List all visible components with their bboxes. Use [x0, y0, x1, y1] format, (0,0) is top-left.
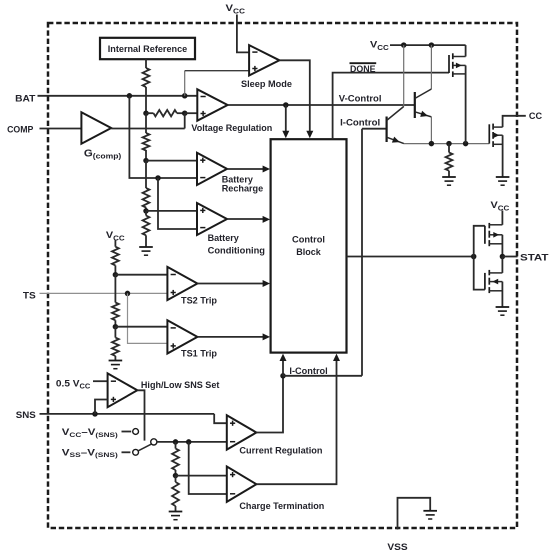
node L (VCC tap Q1) — [429, 42, 435, 48]
wire VSS-V(SNS) lead — [122, 451, 131, 453]
arrow into Control Block top (v-control) — [282, 131, 289, 138]
resistor R1 (reference string top) — [143, 68, 150, 87]
wire STAT output to pin — [502, 256, 517, 258]
node B (VR plus tap) — [182, 110, 188, 116]
wire reference output lead — [145, 59, 147, 68]
svg-text:TS2 Trip: TS2 Trip — [181, 296, 217, 307]
label TS1 Trip — [181, 349, 217, 360]
wire BAT to Sleep Mode plus (vertical, thin) — [184, 71, 186, 96]
svg-text:Control: Control — [292, 234, 325, 245]
wire R8 to ground — [114, 356, 116, 361]
svg-text:Charge Termination: Charge Termination — [239, 501, 324, 512]
wire Q1 collector riser (thin) — [430, 45, 432, 89]
control block U11 — [271, 139, 347, 352]
resistor R6 (TS divider top) — [112, 247, 119, 266]
transistor Q1 (V-Control NPN) — [415, 89, 432, 118]
node V-Control junction — [283, 102, 289, 108]
resistor R8 (TS divider bottom) — [112, 338, 119, 356]
arrow into Control Block left (recharge) — [263, 166, 270, 173]
arrow into Control Block bottom (i-control) — [280, 354, 287, 361]
wire BAT to Sleep Mode plus (horizontal) — [185, 70, 249, 72]
svg-text:STAT: STAT — [520, 253, 549, 264]
node N (rail junction R11) — [446, 141, 452, 147]
power VCC (TS divider) — [106, 230, 125, 242]
pin STAT label — [520, 253, 549, 264]
label TS2 Trip — [181, 296, 217, 307]
op-amp U5 TS2 Trip — [167, 267, 197, 300]
wire Charge Termination output to Control Block bottom — [256, 356, 336, 484]
label I-Control (bottom) — [289, 366, 327, 377]
wire emitter rail (thin) — [404, 143, 489, 145]
wire TS branch to TS1 Trip plus (gray) — [128, 293, 168, 343]
wire Battery Conditioning output — [227, 218, 264, 220]
svg-text:Block: Block — [296, 247, 321, 258]
svg-text:Battery: Battery — [208, 233, 240, 244]
wire gate bracket — [474, 226, 485, 290]
wire D-R5 lead — [145, 211, 147, 216]
switch S1 blade — [138, 444, 151, 451]
wire VCC to M3 source — [501, 211, 503, 225]
ground (emitter rail) — [442, 177, 456, 185]
wire SNS to High/Low plus — [95, 400, 108, 414]
svg-text:High/Low SNS Set: High/Low SNS Set — [141, 380, 220, 391]
node Q (STAT output node) — [500, 254, 506, 260]
wire BAT input — [38, 95, 130, 97]
pin VSS label — [387, 542, 407, 553]
wire R2 right lead — [177, 112, 185, 114]
node G (TS1 threshold tap) — [113, 324, 119, 330]
node K (VCC tap Q2) — [401, 42, 407, 48]
node F (TS2 threshold tap) — [113, 272, 119, 278]
node BAT junction 2 — [182, 93, 188, 99]
chip boundary (dashed box) — [48, 23, 517, 528]
label Voltage Regulation — [191, 123, 272, 134]
wire node E to Battery Conditioning minus — [158, 178, 197, 229]
wire V-Control to Control Block top — [285, 105, 287, 135]
resistor R2 (horizontal to VR plus) — [154, 110, 177, 116]
wire VCC-V(SNS) lead — [122, 431, 132, 433]
wire 0.5VCC to High/Low minus — [93, 380, 108, 382]
node D (conditioning tap) — [143, 208, 149, 214]
wire Q1 emitter drop (thin) — [430, 117, 432, 144]
node SNS junction — [92, 411, 98, 417]
wire Q2 collector riser (thin) — [403, 45, 405, 106]
label VCC-V(SNS) — [62, 427, 118, 439]
power VCC (drive stage) — [370, 40, 389, 52]
wire R3 to node C — [145, 150, 147, 161]
wire G(comp) output to node B branch — [111, 128, 185, 130]
wire VCC to M1 source — [465, 45, 467, 56]
resistor R4 (reference string) — [143, 188, 150, 208]
internal reference block U10 — [100, 38, 195, 59]
wire M3 drain to STAT node — [501, 235, 503, 257]
wire M4 source to ground — [501, 282, 503, 307]
node A (reference tap 1) — [143, 110, 149, 116]
arrow into Control Block top (sleep) — [306, 131, 313, 138]
ground (M4 source) — [496, 307, 510, 315]
wire F-R7 lead — [114, 275, 116, 303]
wire I-Control node to I-Control riser — [283, 375, 362, 377]
wire VCC to Sleep Mode minus — [237, 15, 249, 53]
ground (TS divider) — [109, 361, 123, 369]
wire M1 drain to rail — [465, 65, 467, 143]
label Sleep Mode — [241, 79, 292, 90]
wire M2 drain to CC pin — [503, 116, 526, 127]
svg-text:Current Regulation: Current Regulation — [239, 445, 322, 456]
wire node G to TS1 Trip minus — [115, 326, 167, 328]
wire R1 to node A (crosses BAT line) — [145, 87, 147, 113]
wire Current Regulation output to I-Control node — [256, 376, 283, 433]
arrow into Control Block left (TS2) — [263, 280, 270, 287]
wire R5 to ground — [145, 235, 147, 247]
svg-text:DONE: DONE — [350, 64, 376, 74]
transistor M2 (CC NMOS) — [489, 124, 502, 147]
switch S1 pole — [151, 439, 157, 445]
op-amp U9 Charge Termination — [227, 467, 257, 502]
svg-text:TS: TS — [23, 291, 36, 302]
label Charge Termination — [239, 501, 324, 512]
op-amp U4 Battery Conditioning — [197, 203, 227, 235]
wire I-Control node to Control Block bottom — [282, 356, 284, 376]
resistor R3 (reference string) — [143, 133, 150, 151]
node BAT junction 1 — [127, 93, 133, 99]
label Battery Recharge — [222, 174, 264, 194]
svg-text:VSS: VSS — [387, 542, 407, 553]
wire TS2 Trip output — [197, 283, 263, 285]
label V-Control — [339, 93, 382, 104]
wire R9 to node J — [175, 470, 177, 476]
arrow into Control Block left (TS1) — [263, 333, 270, 340]
transistor Q2 (I-Control NPN) — [387, 107, 404, 144]
wire COMP input — [40, 128, 82, 130]
op-amp U3 Battery Recharge — [197, 153, 227, 185]
label High/Low SNS Set — [141, 380, 220, 391]
wire SNS input — [40, 413, 215, 415]
ground (VSS) — [423, 511, 437, 519]
resistor R10 (SNS filter bottom) — [172, 482, 179, 506]
wire node D to Battery Conditioning plus — [146, 210, 197, 212]
wire node B down to G(comp) output line — [184, 113, 186, 128]
svg-text:SNS: SNS — [16, 410, 36, 421]
op-amp U7 High/Low SNS Set — [108, 373, 138, 407]
node I (switch line junction 2) — [186, 439, 192, 445]
wire C-R4 lead — [145, 161, 147, 188]
power VCC (top) — [226, 3, 246, 15]
op-amp U1 Sleep Mode — [249, 45, 279, 75]
wire node F to TS2 Trip minus — [115, 274, 167, 276]
wire switch common to Current Regulation minus — [157, 441, 227, 443]
svg-text:Sleep Mode: Sleep Mode — [241, 79, 292, 90]
node M (rail junction Q1) — [429, 141, 435, 147]
svg-text:COMP: COMP — [7, 125, 34, 136]
op-amp U8 Current Regulation — [227, 415, 257, 449]
svg-text:V-Control: V-Control — [339, 93, 382, 104]
wire VCC lead to R6 — [114, 240, 116, 247]
wire N-R11 lead — [448, 144, 450, 153]
wire node I to Charge Termination minus — [189, 442, 227, 494]
resistor R7 (TS divider middle) — [112, 303, 119, 321]
label G(comp) — [84, 148, 122, 160]
wire I-Control riser — [361, 129, 363, 376]
svg-text:CC: CC — [529, 111, 542, 122]
wire R1b lead — [145, 113, 147, 133]
terminal VCC-V(SNS) contact — [133, 429, 139, 435]
terminal VSS-V(SNS) contact — [133, 449, 139, 455]
ground (M2 source) — [496, 177, 510, 185]
wire TS1 Trip output — [197, 336, 263, 338]
node I-Control junction — [280, 373, 286, 379]
label DONE with overline — [350, 63, 377, 74]
resistor R9 (SNS filter top) — [172, 449, 179, 471]
wire VSS to ground — [398, 498, 431, 530]
label I-Control (top) — [340, 118, 380, 129]
svg-text:Conditioning: Conditioning — [208, 246, 266, 257]
label Battery Conditioning — [208, 233, 266, 256]
op-amp U2 Voltage Regulation — [197, 89, 227, 120]
resistor R5 (reference string bottom) — [143, 216, 150, 236]
node C (recharge tap) — [143, 158, 149, 164]
pin BAT label — [15, 93, 35, 104]
power VCC (STAT driver) — [491, 200, 510, 212]
svg-text:I-Control: I-Control — [340, 118, 380, 129]
ground (reference string) — [139, 247, 153, 255]
amplifier G(comp) — [81, 112, 111, 143]
arrow into Control Block left (conditioning) — [263, 216, 270, 223]
pin TS label — [23, 291, 36, 302]
node H (switch line junction 1) — [173, 439, 179, 445]
svg-text:BAT: BAT — [15, 93, 35, 104]
pin CC label — [529, 111, 542, 122]
wire BAT branch down — [129, 96, 197, 178]
wire Sleep Mode output to Control Block top — [279, 60, 309, 135]
svg-text:TS1 Trip: TS1 Trip — [181, 349, 217, 360]
label 0.5 VCC — [56, 378, 90, 390]
wire STAT (Control Block to gates) — [347, 256, 474, 258]
wire node C to Battery Recharge plus — [146, 160, 197, 162]
resistor R11 (emitter rail load) — [446, 153, 453, 171]
transistor M1 (DONE PMOS) — [449, 53, 466, 77]
node TS junction — [125, 291, 131, 297]
pin SNS label — [16, 410, 36, 421]
wire VCC rail — [390, 44, 466, 46]
wire SNS step to Current Regulation plus — [214, 414, 227, 423]
wire R2 left lead — [146, 112, 154, 114]
wire I-Control to Q2 base — [362, 128, 387, 130]
wire DONE (Control Block to M1 gate) — [333, 73, 449, 140]
wire node J to Charge Termination plus — [176, 475, 227, 477]
wire H-R9 lead — [175, 442, 177, 449]
node E (recharge minus junction) — [155, 175, 161, 181]
node P (gate bracket junction) — [471, 254, 477, 260]
op-amp U6 TS1 Trip — [167, 320, 197, 353]
label VSS-V(SNS) — [62, 447, 118, 459]
transistor M3 (STAT PMOS) — [485, 223, 503, 246]
wire M4 drain to STAT node — [501, 257, 503, 273]
wire R10 to ground — [175, 506, 177, 512]
wire rail to M2 gate — [488, 143, 490, 145]
wire R6 to node F — [114, 265, 116, 274]
wire M2 source to ground — [502, 135, 504, 177]
wire J-R10 lead — [175, 476, 177, 482]
svg-text:Internal Reference: Internal Reference — [108, 44, 188, 54]
svg-text:Recharge: Recharge — [222, 183, 264, 194]
wire High/Low output to switch — [137, 390, 144, 440]
ground (SNS filter) — [169, 512, 183, 520]
wire TS input to TS2 Trip plus (gray) — [40, 292, 168, 294]
pin COMP label — [7, 125, 34, 136]
wire node B to Voltage Regulation plus — [185, 112, 198, 114]
arrow into Control Block bottom (termination) — [333, 354, 340, 361]
svg-text:Voltage Regulation: Voltage Regulation — [191, 123, 272, 134]
wire R7 to node G — [114, 320, 116, 326]
wire G-R8 lead — [114, 327, 116, 338]
wire V-Control line (VR output to Q1 base) — [228, 104, 415, 106]
wire Battery Recharge output — [227, 168, 264, 170]
transistor M4 (STAT NMOS) — [485, 270, 503, 293]
wire BAT to Voltage Regulation minus — [129, 95, 197, 97]
node J (charge termination tap) — [173, 473, 179, 479]
wire R11 to ground — [448, 171, 450, 177]
label Current Regulation — [239, 445, 322, 456]
node O (rail junction M1 drain) — [463, 141, 469, 147]
wire R4 to node D — [145, 208, 147, 211]
